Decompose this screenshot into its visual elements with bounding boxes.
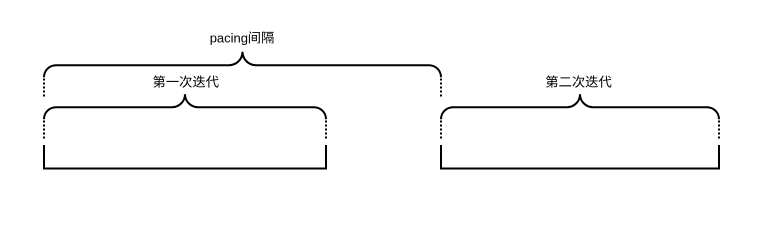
label: 第二次迭代 [546, 75, 612, 87]
brace: second iteration [441, 94, 719, 119]
dotted tail: top brace right end [440, 79, 442, 98]
label: pacing间隔 [210, 31, 274, 46]
brace: first iteration [44, 94, 326, 119]
dotted tail: second-iteration brace right end [718, 121, 720, 140]
dotted tail: top brace left end [43, 79, 45, 98]
svg-text:pacing: pacing [210, 31, 248, 46]
timeline bracket: second iteration [441, 145, 719, 169]
brace: pacing interval (top, spans start of first iteration to start of second iteration) [44, 52, 441, 77]
dotted tail: second-iteration brace left end [440, 121, 442, 140]
label: 第一次迭代 [153, 75, 219, 87]
dotted tail: first-iteration brace left end [43, 121, 45, 140]
dotted tail: first-iteration brace right end [325, 121, 327, 140]
timeline bracket: first iteration [44, 145, 326, 169]
